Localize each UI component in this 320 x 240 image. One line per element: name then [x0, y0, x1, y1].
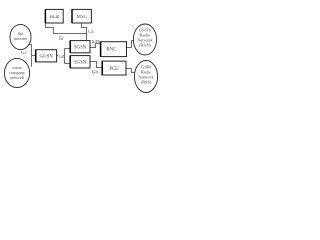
- svg-text:SGSN: SGSN: [74, 60, 87, 65]
- svg-text:PCU: PCU: [109, 67, 119, 72]
- svg-text:IuPS: IuPS: [92, 40, 102, 45]
- svg-text:HLR: HLR: [49, 15, 60, 20]
- svg-text:Gb: Gb: [92, 71, 99, 76]
- svg-text:internet: internet: [14, 36, 28, 41]
- svg-text:MSC: MSC: [77, 15, 87, 20]
- svg-text:network: network: [10, 75, 25, 80]
- svg-text:(RAN): (RAN): [139, 43, 152, 48]
- svg-text:Gn: Gn: [59, 55, 66, 60]
- svg-text:Gr: Gr: [59, 37, 65, 42]
- svg-text:(BSS): (BSS): [141, 80, 152, 85]
- svg-text:RNC: RNC: [106, 47, 116, 52]
- svg-text:Gs: Gs: [88, 30, 94, 35]
- svg-text:SGSN: SGSN: [74, 45, 87, 50]
- svg-text:GGSN: GGSN: [40, 55, 54, 60]
- svg-text:Gi: Gi: [21, 51, 27, 56]
